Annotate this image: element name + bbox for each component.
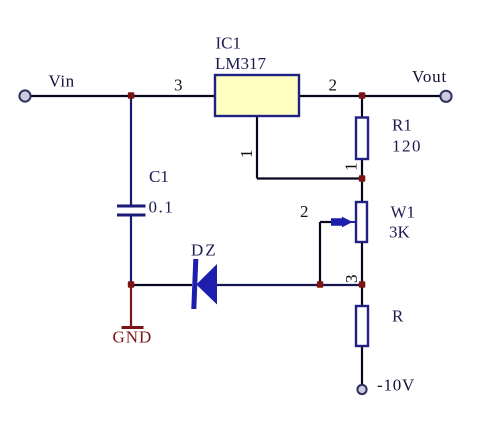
wire node 3 to R top: [361, 285, 363, 306]
wire R1 bottom to node ADJ: [361, 158, 363, 180]
wire node2 to R1 top: [361, 96, 363, 118]
junction node at GND/C1/DZ: [128, 281, 135, 288]
svg-text:GND: GND: [113, 328, 153, 347]
svg-text:120: 120: [392, 137, 422, 156]
junction node 3 below W1: [359, 281, 366, 288]
svg-text:W1: W1: [391, 203, 416, 222]
svg-text:2: 2: [300, 202, 309, 221]
wire C1 branch lower: [130, 216, 132, 285]
wire GND node to DZ cathode: [131, 284, 192, 286]
svg-text:Vin: Vin: [49, 72, 75, 91]
wire DZ anode to node 3: [216, 284, 362, 286]
terminal Vin: [19, 90, 30, 101]
resistor R body: [356, 306, 368, 346]
wire IC1 pin 1 horizontal to node ADJ: [257, 177, 362, 179]
junction node at wiper return: [317, 281, 324, 288]
svg-text:R: R: [392, 307, 404, 326]
wire IC1 pin 2 to Vout: [298, 95, 441, 97]
svg-text:IC1: IC1: [216, 34, 242, 53]
zener diode DZ: [191, 259, 217, 309]
svg-text:3K: 3K: [389, 223, 411, 242]
W1 wiper arrow: [331, 217, 356, 228]
wire W1 wiper vertical: [319, 222, 321, 285]
terminal Vout: [440, 91, 451, 102]
svg-text:3: 3: [342, 275, 361, 284]
svg-text:R1: R1: [392, 116, 412, 135]
svg-text:Vout: Vout: [412, 67, 447, 86]
wire node ADJ to W1 top: [361, 179, 363, 203]
junction node ADJ below R1: [359, 175, 366, 182]
svg-text:2: 2: [329, 76, 338, 95]
wire W1 bottom to node 3: [361, 242, 363, 285]
svg-text:C1: C1: [149, 167, 169, 186]
svg-text:1: 1: [237, 150, 256, 159]
svg-text:1: 1: [342, 163, 361, 172]
wire Vin to IC1 pin 3: [30, 95, 215, 97]
svg-text:3: 3: [174, 76, 183, 95]
junction node at Vout/R1 top: [359, 92, 366, 99]
IC regulator U IC1 body: [215, 75, 299, 116]
ground symbol GND: [122, 287, 144, 328]
svg-text:LM317: LM317: [215, 54, 267, 73]
svg-text:DZ: DZ: [191, 241, 218, 260]
junction node at Vin/C1 branch: [128, 92, 135, 99]
wire IC1 pin 1 vertical: [256, 116, 258, 179]
resistor R1 body: [356, 118, 368, 160]
wire C1 branch upper: [130, 96, 132, 205]
capacitor C1 plates: [117, 206, 146, 215]
wire R bottom to -10V terminal: [361, 346, 363, 385]
terminal -10V: [357, 385, 366, 394]
svg-text:0.1: 0.1: [149, 198, 175, 217]
svg-text:-10V: -10V: [377, 376, 415, 395]
potentiometer W1 body: [356, 202, 367, 242]
wire W1 wiper horizontal: [320, 221, 331, 223]
